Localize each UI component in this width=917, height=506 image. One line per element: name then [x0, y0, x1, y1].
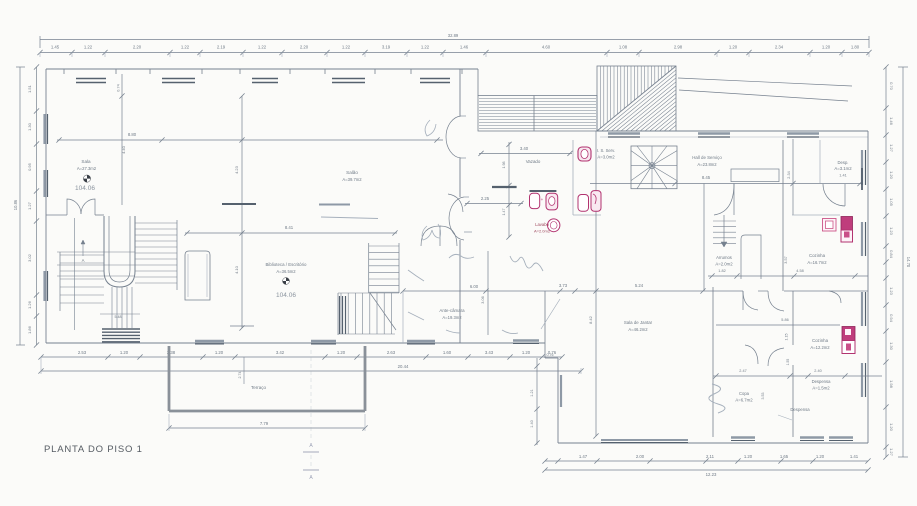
svg-text:Arrumos: Arrumos — [716, 255, 732, 260]
vertical line through window x122 — [121, 74, 123, 205]
svg-text:32.89: 32.89 — [448, 33, 459, 38]
svg-text:4.60: 4.60 — [542, 45, 551, 50]
svg-text:5.24: 5.24 — [635, 283, 644, 288]
main stair treads right flight — [135, 222, 177, 224]
svg-text:Cozinha: Cozinha — [809, 253, 826, 258]
vazado vertical dim — [508, 142, 510, 237]
dim 2.25 lavabo — [465, 203, 523, 205]
svg-text:1.98: 1.98 — [889, 380, 894, 389]
svg-text:2.19: 2.19 — [217, 45, 226, 50]
svg-text:A=19.3m2: A=19.3m2 — [442, 315, 462, 320]
bottom-right subdivided dimension line — [545, 460, 868, 462]
copa dimension line y376 — [713, 375, 882, 377]
svg-text:3.42: 3.42 — [276, 350, 285, 355]
svg-text:8.41: 8.41 — [285, 225, 294, 230]
kitchen2 stove magenta — [842, 327, 855, 341]
stair dim lines left — [57, 264, 135, 266]
closet rectangle — [741, 235, 761, 279]
overall right dimension line 14.70 — [902, 67, 904, 457]
svg-text:3.19: 3.19 — [382, 45, 391, 50]
L-stair diagonal — [370, 293, 396, 330]
svg-text:A=36.5m2: A=36.5m2 — [276, 269, 296, 274]
svg-text:1.47: 1.47 — [579, 454, 588, 459]
main stair treads left flight — [60, 254, 104, 256]
svg-text:4.10: 4.10 — [234, 265, 239, 274]
svg-text:1.46: 1.46 — [460, 45, 469, 50]
bottom-left overall dimension line 20.44 — [41, 370, 581, 372]
right wing right wall — [867, 131, 869, 443]
terrace wall left — [168, 346, 171, 411]
svg-text:7.79: 7.79 — [260, 421, 269, 426]
svg-text:1.20: 1.20 — [337, 350, 346, 355]
svg-text:+: + — [541, 197, 544, 202]
top subdivided dimension line — [40, 52, 869, 54]
arrumos dimension line y276 — [708, 275, 868, 277]
sala de jantar left wall — [557, 358, 559, 443]
svg-text:3.73: 3.73 — [559, 283, 568, 288]
svg-text:Sala de Jantar: Sala de Jantar — [624, 320, 653, 325]
hall de servico dimension line 8.45 — [590, 183, 863, 185]
svg-text:I. S. Serv.: I. S. Serv. — [597, 148, 615, 153]
wall x545 step — [544, 291, 546, 358]
hatch bar vazado — [492, 186, 517, 188]
L-stair horizontal flight — [337, 293, 339, 335]
svg-text:1.98: 1.98 — [502, 162, 506, 169]
svg-text:Ante-câmara: Ante-câmara — [439, 308, 465, 313]
svg-text:1.65: 1.65 — [780, 454, 789, 459]
plant squiggle 2 — [510, 256, 543, 271]
svg-text:A=46.2m2: A=46.2m2 — [628, 327, 648, 332]
kitchen top interior wall y215 — [792, 214, 840, 216]
svg-text:10.86: 10.86 — [13, 199, 18, 210]
interior dimension line y291 6.00 3.73 5.24 — [403, 290, 743, 292]
plant squiggle 4 — [408, 312, 424, 320]
svg-text:Cozinha: Cozinha — [812, 338, 829, 343]
door cozinha2 top — [829, 291, 841, 303]
svg-text:PLANTA DO PISO 1: PLANTA DO PISO 1 — [44, 444, 143, 455]
survey point symbol sala — [83, 175, 90, 182]
svg-text:A=27.3m2: A=27.3m2 — [77, 166, 97, 171]
svg-text:1.86: 1.86 — [27, 325, 32, 334]
wall x704 hall-arrumos — [703, 184, 705, 292]
terrace small dim 2.74 — [243, 357, 245, 384]
svg-text:1.22: 1.22 — [421, 45, 430, 50]
svg-text:Salão: Salão — [346, 170, 358, 175]
left wing bottom wall — [46, 342, 460, 344]
lavabo oval sink — [548, 219, 560, 232]
roof hatched area right part with diagonal — [597, 66, 676, 131]
svg-text:0.74: 0.74 — [117, 84, 121, 91]
svg-text:3.02: 3.02 — [27, 253, 32, 262]
vertical dim line 8.42 x596 — [595, 131, 597, 436]
squiggle left of library — [425, 120, 436, 136]
svg-text:0.94: 0.94 — [889, 314, 894, 323]
svg-text:12.23: 12.23 — [706, 472, 717, 477]
svg-text:1.82: 1.82 — [718, 269, 725, 273]
kitchen sink magenta top right — [841, 217, 853, 231]
second wc pair near stair — [578, 195, 589, 212]
wall between vazado and service — [572, 140, 574, 215]
wall y358 sala jantar — [545, 357, 558, 359]
L-stair left hatch — [339, 296, 341, 334]
left wall windows — [43, 114, 45, 144]
svg-text:2.47: 2.47 — [739, 369, 746, 373]
plant squiggle 1 — [449, 254, 474, 258]
door arc at x460 wall antechamber top — [448, 194, 463, 212]
svg-text:3.57: 3.57 — [784, 256, 788, 263]
svg-text:3.40: 3.40 — [520, 146, 529, 151]
svg-text:1.20: 1.20 — [120, 350, 129, 355]
wall x793 dim 2.34 — [792, 139, 794, 215]
left wing left wall — [45, 69, 47, 343]
svg-text:1.46: 1.46 — [889, 117, 894, 126]
svg-text:8.80: 8.80 — [128, 132, 137, 137]
door salao right wall upper double swing — [446, 116, 461, 137]
svg-text:1.51: 1.51 — [27, 84, 32, 93]
terrace dimension 7.79 — [169, 427, 365, 429]
svg-text:Desp.: Desp. — [838, 160, 849, 165]
interior dimension line y140 with 8.80 — [57, 139, 443, 141]
svg-text:1.05: 1.05 — [889, 198, 894, 207]
svg-text:2.20: 2.20 — [300, 45, 309, 50]
toilet IS serv — [578, 147, 591, 161]
main stair U-shaped stairwell — [104, 216, 135, 287]
svg-text:1.20: 1.20 — [822, 45, 831, 50]
plant squiggle 6 — [502, 330, 518, 334]
left subdivided dimension line — [36, 67, 38, 345]
svg-text:1.20: 1.20 — [729, 45, 738, 50]
door desp cozinha — [823, 184, 845, 206]
overall top dimension line 32.89 — [40, 39, 869, 41]
svg-text:Terraço: Terraço — [251, 385, 267, 390]
plant squiggle antechamber diag — [541, 299, 560, 329]
svg-text:A=6.7m2: A=6.7m2 — [735, 398, 753, 403]
svg-text:14.70: 14.70 — [906, 257, 911, 268]
svg-text:1.08: 1.08 — [619, 45, 628, 50]
svg-text:Hall de Serviço: Hall de Serviço — [692, 155, 722, 160]
svg-text:A: A — [82, 258, 85, 263]
copa squiggle — [709, 384, 725, 413]
svg-text:1.23: 1.23 — [889, 287, 894, 296]
svg-text:1.30: 1.30 — [889, 342, 894, 351]
svg-text:A=16.7m2: A=16.7m2 — [807, 260, 827, 265]
L-stair vertical flight (library) — [368, 243, 370, 293]
svg-text:0.76: 0.76 — [547, 353, 554, 357]
roof eave lines extending right — [678, 78, 852, 86]
left wing right wall — [459, 69, 461, 116]
svg-text:2.34: 2.34 — [775, 45, 784, 50]
svg-text:A=23.8m2: A=23.8m2 — [697, 162, 717, 167]
small stair hall to dining — [713, 220, 736, 222]
roof left edge — [477, 69, 479, 96]
svg-text:2.74: 2.74 — [238, 372, 242, 379]
svg-text:1.55: 1.55 — [786, 359, 790, 366]
svg-text:A=3.0m2: A=3.0m2 — [597, 155, 615, 160]
svg-text:2.98: 2.98 — [674, 45, 683, 50]
vertical wall x488 — [487, 251, 489, 335]
plant squiggle 5 — [446, 330, 460, 333]
vazado dim 3.40 — [479, 152, 572, 154]
svg-text:1.80: 1.80 — [851, 45, 860, 50]
stair left guide line — [74, 218, 76, 330]
svg-text:Despensa: Despensa — [812, 379, 832, 384]
svg-text:3.06: 3.06 — [481, 296, 485, 303]
wall x783 corridor — [782, 140, 784, 291]
svg-text:104.06: 104.06 — [75, 185, 95, 192]
svg-text:Copa: Copa — [739, 391, 750, 396]
svg-text:Lavabo: Lavabo — [535, 222, 549, 227]
svg-text:Vazado: Vazado — [526, 159, 541, 164]
svg-text:1.27: 1.27 — [889, 144, 894, 153]
right subdivided dimension line — [885, 67, 887, 457]
wc and bidet pair lavabo — [530, 190, 557, 192]
svg-text:1.23: 1.23 — [889, 227, 894, 236]
door salao right wall lower double swing — [449, 197, 464, 218]
right wing bottom wall — [558, 442, 868, 444]
right wing top wall — [597, 130, 868, 132]
vertical dim line x537 — [536, 358, 538, 445]
cabinet right of main stair — [185, 251, 210, 300]
svg-text:3.53: 3.53 — [761, 393, 765, 400]
stair hall wall y215 — [46, 214, 67, 216]
antecamara left wall — [402, 291, 404, 343]
double door sala entrance — [67, 199, 81, 215]
svg-text:Biblioteca / Escritório: Biblioteca / Escritório — [266, 262, 308, 267]
svg-text:2.63: 2.63 — [387, 350, 396, 355]
svg-text:2.20: 2.20 — [133, 45, 142, 50]
svg-text:5.48: 5.48 — [115, 315, 122, 319]
svg-text:0.70: 0.70 — [889, 82, 894, 91]
section marker A bottom — [303, 469, 319, 471]
hob square with inner square — [823, 219, 837, 232]
svg-text:1.47: 1.47 — [502, 209, 506, 216]
svg-text:6.00: 6.00 — [470, 284, 479, 289]
svg-text:1.40: 1.40 — [530, 420, 534, 427]
plant squiggle 3 — [408, 270, 424, 281]
svg-text:1.20: 1.20 — [215, 350, 224, 355]
svg-text:1.20: 1.20 — [889, 171, 894, 180]
svg-text:104.06: 104.06 — [276, 292, 296, 299]
sideboard rectangle hall — [731, 169, 779, 182]
svg-text:1.20: 1.20 — [522, 350, 531, 355]
svg-text:2.34: 2.34 — [787, 171, 791, 178]
main stair balusters below — [111, 287, 113, 328]
doors on wall y291 dining side — [743, 291, 758, 310]
bottom wall windows right wing — [601, 439, 688, 441]
section line dashed — [310, 350, 312, 440]
svg-text:Despensa: Despensa — [790, 407, 810, 412]
svg-text:A=12.2m2: A=12.2m2 — [810, 345, 830, 350]
svg-text:8.42: 8.42 — [588, 315, 593, 324]
roof hatched area left part — [478, 96, 597, 132]
left wing top wall — [46, 68, 478, 70]
svg-text:20.44: 20.44 — [398, 364, 409, 369]
svg-text:1.20: 1.20 — [816, 454, 825, 459]
overall left dimension line 10.86 — [19, 67, 21, 345]
right wall windows — [861, 150, 863, 185]
stair bottom hatch bars — [102, 328, 140, 330]
svg-text:A=39.7m2: A=39.7m2 — [342, 177, 362, 182]
svg-text:2.53: 2.53 — [78, 350, 87, 355]
svg-text:8.45: 8.45 — [702, 175, 711, 180]
bottom wall windows left wing — [195, 340, 224, 342]
svg-text:A=2.0m2: A=2.0m2 — [534, 229, 551, 234]
svg-text:3.43: 3.43 — [485, 350, 494, 355]
wall x713 copa left — [712, 287, 714, 437]
svg-text:1.15: 1.15 — [785, 334, 789, 341]
right wing top wall windows — [608, 132, 640, 134]
desp left wall — [819, 140, 821, 183]
vertical dimension line x242 — [241, 96, 243, 328]
svg-text:1.21: 1.21 — [530, 389, 534, 396]
interior dimension line 8.41 — [185, 232, 397, 234]
svg-text:1.60: 1.60 — [443, 350, 452, 355]
bottom-left subdivided dimension line — [41, 356, 562, 358]
svg-text:A=1.5m2: A=1.5m2 — [812, 386, 830, 391]
svg-text:1.22: 1.22 — [181, 45, 190, 50]
door antecamara arcs — [421, 226, 440, 246]
squiggle salao curves — [422, 224, 441, 240]
terrace wall bottom — [169, 410, 365, 413]
svg-text:1.22: 1.22 — [84, 45, 93, 50]
svg-text:Sala: Sala — [81, 159, 91, 164]
door hall de servico down — [714, 184, 734, 216]
svg-text:1.22: 1.22 — [258, 45, 267, 50]
wall x793 despensa divider — [792, 291, 794, 345]
svg-text:0.84: 0.84 — [889, 250, 894, 259]
column bars salao — [222, 203, 256, 205]
svg-text:A=3.1m2: A=3.1m2 — [834, 166, 852, 171]
svg-text:5.86: 5.86 — [781, 318, 788, 322]
svg-text:2.11: 2.11 — [706, 454, 715, 459]
central bottom wall 460-545 — [460, 342, 545, 344]
terrace wall right — [364, 346, 367, 411]
svg-text:1.22: 1.22 — [342, 45, 351, 50]
svg-text:1.20: 1.20 — [744, 454, 753, 459]
svg-text:1.45: 1.45 — [51, 45, 60, 50]
svg-text:1.26: 1.26 — [27, 300, 32, 309]
svg-text:2.40: 2.40 — [814, 369, 821, 373]
svg-text:1.41: 1.41 — [850, 454, 859, 459]
svg-text:1.27: 1.27 — [889, 448, 894, 457]
svg-text:1.30: 1.30 — [27, 122, 32, 131]
svg-text:2.25: 2.25 — [481, 196, 490, 201]
spiral stair radiating treads — [652, 165, 677, 167]
service area lower wall — [573, 214, 601, 216]
spiral stair box — [631, 146, 677, 189]
bottom-right overall dimension line 12.23 — [545, 469, 868, 471]
svg-text:1.41: 1.41 — [839, 174, 846, 178]
svg-text:4.23: 4.23 — [234, 165, 239, 174]
svg-text:2.00: 2.00 — [636, 454, 645, 459]
svg-text:0.95: 0.95 — [27, 162, 32, 171]
svg-text:4.58: 4.58 — [796, 269, 803, 273]
svg-text:1.20: 1.20 — [889, 423, 894, 432]
wall y325 kitchen divider — [716, 324, 840, 326]
svg-text:A=2.0m2: A=2.0m2 — [715, 262, 733, 267]
doors copa area — [745, 345, 758, 364]
top wall windows — [64, 68, 116, 70]
svg-text:1.27: 1.27 — [27, 201, 32, 210]
